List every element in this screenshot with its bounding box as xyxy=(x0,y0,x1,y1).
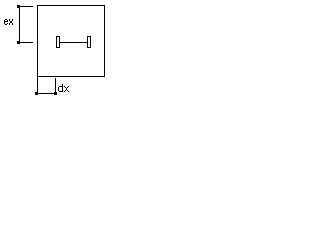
dimension dx right marker xyxy=(54,92,57,95)
dimension ex bottom tick line xyxy=(19,42,33,43)
background xyxy=(0,0,115,100)
dimension dx left witness line xyxy=(37,77,38,93)
dimension dx horizontal line xyxy=(37,93,56,94)
dimension ex bottom marker xyxy=(17,41,20,44)
dimension dx right witness line xyxy=(55,78,56,92)
beam web xyxy=(60,42,87,43)
label ex (pixel glyphs) xyxy=(4,19,13,25)
plate outline (square) xyxy=(37,5,105,77)
dimension dx left marker xyxy=(35,92,38,95)
beam left flange xyxy=(56,36,60,48)
label dx (pixel glyphs) xyxy=(58,84,69,92)
dimension ex top marker xyxy=(17,5,20,8)
beam right flange xyxy=(87,36,91,48)
dimension ex top tick line xyxy=(19,6,33,7)
dimension ex vertical line xyxy=(19,6,20,43)
